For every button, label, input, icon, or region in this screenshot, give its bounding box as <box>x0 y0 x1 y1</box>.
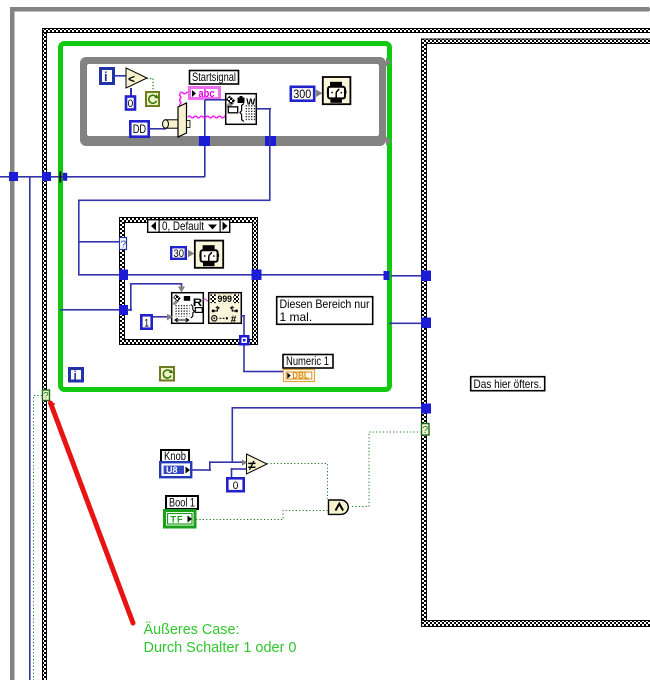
wire: vertical x=79 feeding case selector and tunnel <box>78 200 80 276</box>
wire: DD to concatenate <box>149 128 166 130</box>
tunnel right case y=408 <box>421 404 431 414</box>
coercion arrow into wait icon 2 <box>188 250 195 257</box>
tunnel case1 left lower <box>119 305 128 315</box>
svg-text:i: i <box>104 69 108 84</box>
tunnel on outer case border <box>42 172 51 181</box>
svg-text:<: < <box>128 72 135 86</box>
wire: 1 into R icon <box>153 316 171 318</box>
wait until next ms multiple icon (case) <box>195 241 223 268</box>
wire: knob branch up and into right case (y=408) <box>232 407 423 462</box>
coercion arrow into wait icon <box>316 90 323 98</box>
case selector terminal ? <box>120 238 127 251</box>
tunnel case1 left upper <box>119 270 128 281</box>
case selector terminal ? (outer case) <box>43 390 50 401</box>
svg-text:TF: TF <box>171 515 184 525</box>
red annotation arrow <box>48 400 133 623</box>
label Knob <box>161 450 189 463</box>
svg-text:Das hier öfters.: Das hier öfters. <box>474 377 542 391</box>
wire: 999 output down to DBL <box>241 315 284 372</box>
svg-text:0: 0 <box>128 98 134 110</box>
svg-text:abc: abc <box>199 88 215 100</box>
svg-text:30: 30 <box>174 248 185 260</box>
numeric constant 300 <box>291 87 314 101</box>
numeric constant 0 (top) <box>126 97 135 111</box>
svg-text:≠: ≠ <box>248 457 256 473</box>
label Bool 1 <box>166 496 198 509</box>
wire: green border to right case tunnel y=276 <box>391 275 422 277</box>
not equal node <box>247 454 268 474</box>
svg-text:#: # <box>231 314 237 325</box>
svg-text:i: i <box>74 369 77 383</box>
wire: case right tunnel to green border <box>260 274 386 276</box>
iteration terminal i (sequence) <box>101 69 114 85</box>
iteration terminal i (while loop) <box>70 369 83 383</box>
wire: into case left tunnel (y=275) <box>78 274 119 276</box>
wire: lower tunnel rising to read icon <box>127 283 182 311</box>
wire: long vertical along left margin <box>29 176 31 680</box>
wire: dotted TF to and gate <box>196 511 328 520</box>
while loop inner (green frame) <box>61 44 390 390</box>
tunnel: sequence bottom border right <box>265 136 276 146</box>
wire: string constant down through sequence border <box>204 100 206 177</box>
numeric constant 30 <box>171 247 186 260</box>
tunnel on green border (y=275) <box>384 271 390 280</box>
control terminal Knob U8 <box>160 462 191 477</box>
wire: i terminal to less-than node <box>114 75 126 77</box>
concatenate strings node (funnel) <box>163 103 191 137</box>
loop condition terminal (sequence while) <box>146 92 159 106</box>
wire: into write icon top input <box>205 99 226 101</box>
svg-text:999: 999 <box>218 294 233 304</box>
tunnel on green loop border (y=177) <box>59 172 67 183</box>
wire: dotted selector feed along left margin <box>34 396 43 680</box>
control terminal Bool 1 TF <box>165 511 196 528</box>
case selector terminal ? (right case) <box>422 424 430 437</box>
svg-text:0: 0 <box>233 480 239 492</box>
wire: green border to case1 lower tunnel y=310 <box>60 309 120 311</box>
svg-text:Numeric 1: Numeric 1 <box>286 356 329 368</box>
svg-text:?: ? <box>121 240 127 251</box>
label Das hier oefters <box>471 377 545 391</box>
loop condition terminal (while loop) <box>160 367 174 381</box>
label Startsignal <box>190 70 239 84</box>
wire: pink between R and 999 icons <box>204 299 209 301</box>
svg-text:1 mal.: 1 mal. <box>280 310 313 324</box>
wire: magenta string from abc to concatenate <box>180 92 226 118</box>
wire: write-vi output down from sequence <box>256 108 271 110</box>
wire: knob to not-equal node <box>191 461 246 470</box>
numeric constant 1 <box>141 315 151 329</box>
svg-text:300: 300 <box>293 89 311 101</box>
wire: 0 to not-equal lower input <box>231 468 247 477</box>
tunnel case1 bottom <box>239 335 250 346</box>
wire: into case selector ? <box>78 241 119 243</box>
wire: dotted boolean to loop condition <box>147 79 153 92</box>
read characters from file icon R <box>172 293 204 324</box>
wire: dotted not-equal output to and gate <box>267 464 328 500</box>
wire: from green border to right case y=323.5 <box>389 323 422 325</box>
tunnel: sequence bottom border left <box>199 136 210 146</box>
and gate <box>329 500 349 514</box>
numeric constant 0 (bottom) <box>227 478 243 492</box>
faint pink wire remnant <box>38 430 40 680</box>
svg-text:Diesen Bereich nur: Diesen Bereich nur <box>280 297 370 311</box>
tunnel case1 right <box>252 270 262 281</box>
svg-text:Bool 1: Bool 1 <box>169 497 195 509</box>
tunnel right case y=276 <box>421 271 431 282</box>
label Numeric 1 <box>283 355 333 369</box>
string constant DD <box>130 121 148 136</box>
free label green text <box>144 621 297 656</box>
wait until next ms multiple icon (top) <box>323 77 351 104</box>
string constant abc <box>190 88 220 101</box>
wire: crossing case structure y=275 <box>127 274 257 276</box>
format into string icon 999 <box>209 293 242 326</box>
svg-text:DD: DD <box>133 124 147 136</box>
svg-text:1: 1 <box>144 317 149 329</box>
indicator DBL <box>284 370 315 382</box>
svg-text:?: ? <box>423 425 429 436</box>
svg-text:DBL: DBL <box>292 371 309 381</box>
wire: horizontal y=200 to case selector column <box>78 200 270 202</box>
wire: dotted and output to right case selector <box>352 432 421 507</box>
svg-text:0, Default: 0, Default <box>162 219 205 233</box>
sequence structure (gray frame) <box>80 57 392 146</box>
right case structure (hatched border) <box>421 39 650 628</box>
svg-text:?: ? <box>44 391 49 401</box>
svg-text:Durch Schalter 1 oder 0: Durch Schalter 1 oder 0 <box>144 639 297 656</box>
write characters to file icon <box>226 94 257 125</box>
wire: horizontal boolean/string feed leaving loop at y=177 <box>0 176 205 178</box>
svg-text:U8: U8 <box>166 465 178 475</box>
less-than comparison node <box>126 68 147 88</box>
tunnel on outer gray border <box>9 172 18 181</box>
inner case structure (hatched border) <box>119 217 258 345</box>
tunnel right case y=323 <box>421 318 431 329</box>
svg-text:Startsignal: Startsignal <box>192 70 236 84</box>
case selector label "0, Default" <box>148 219 230 233</box>
svg-text:Äußeres Case:: Äußeres Case: <box>144 621 240 638</box>
label Diesen Bereich nur 1 mal. <box>277 297 373 325</box>
wire: less-than to 0 constant <box>130 88 132 96</box>
